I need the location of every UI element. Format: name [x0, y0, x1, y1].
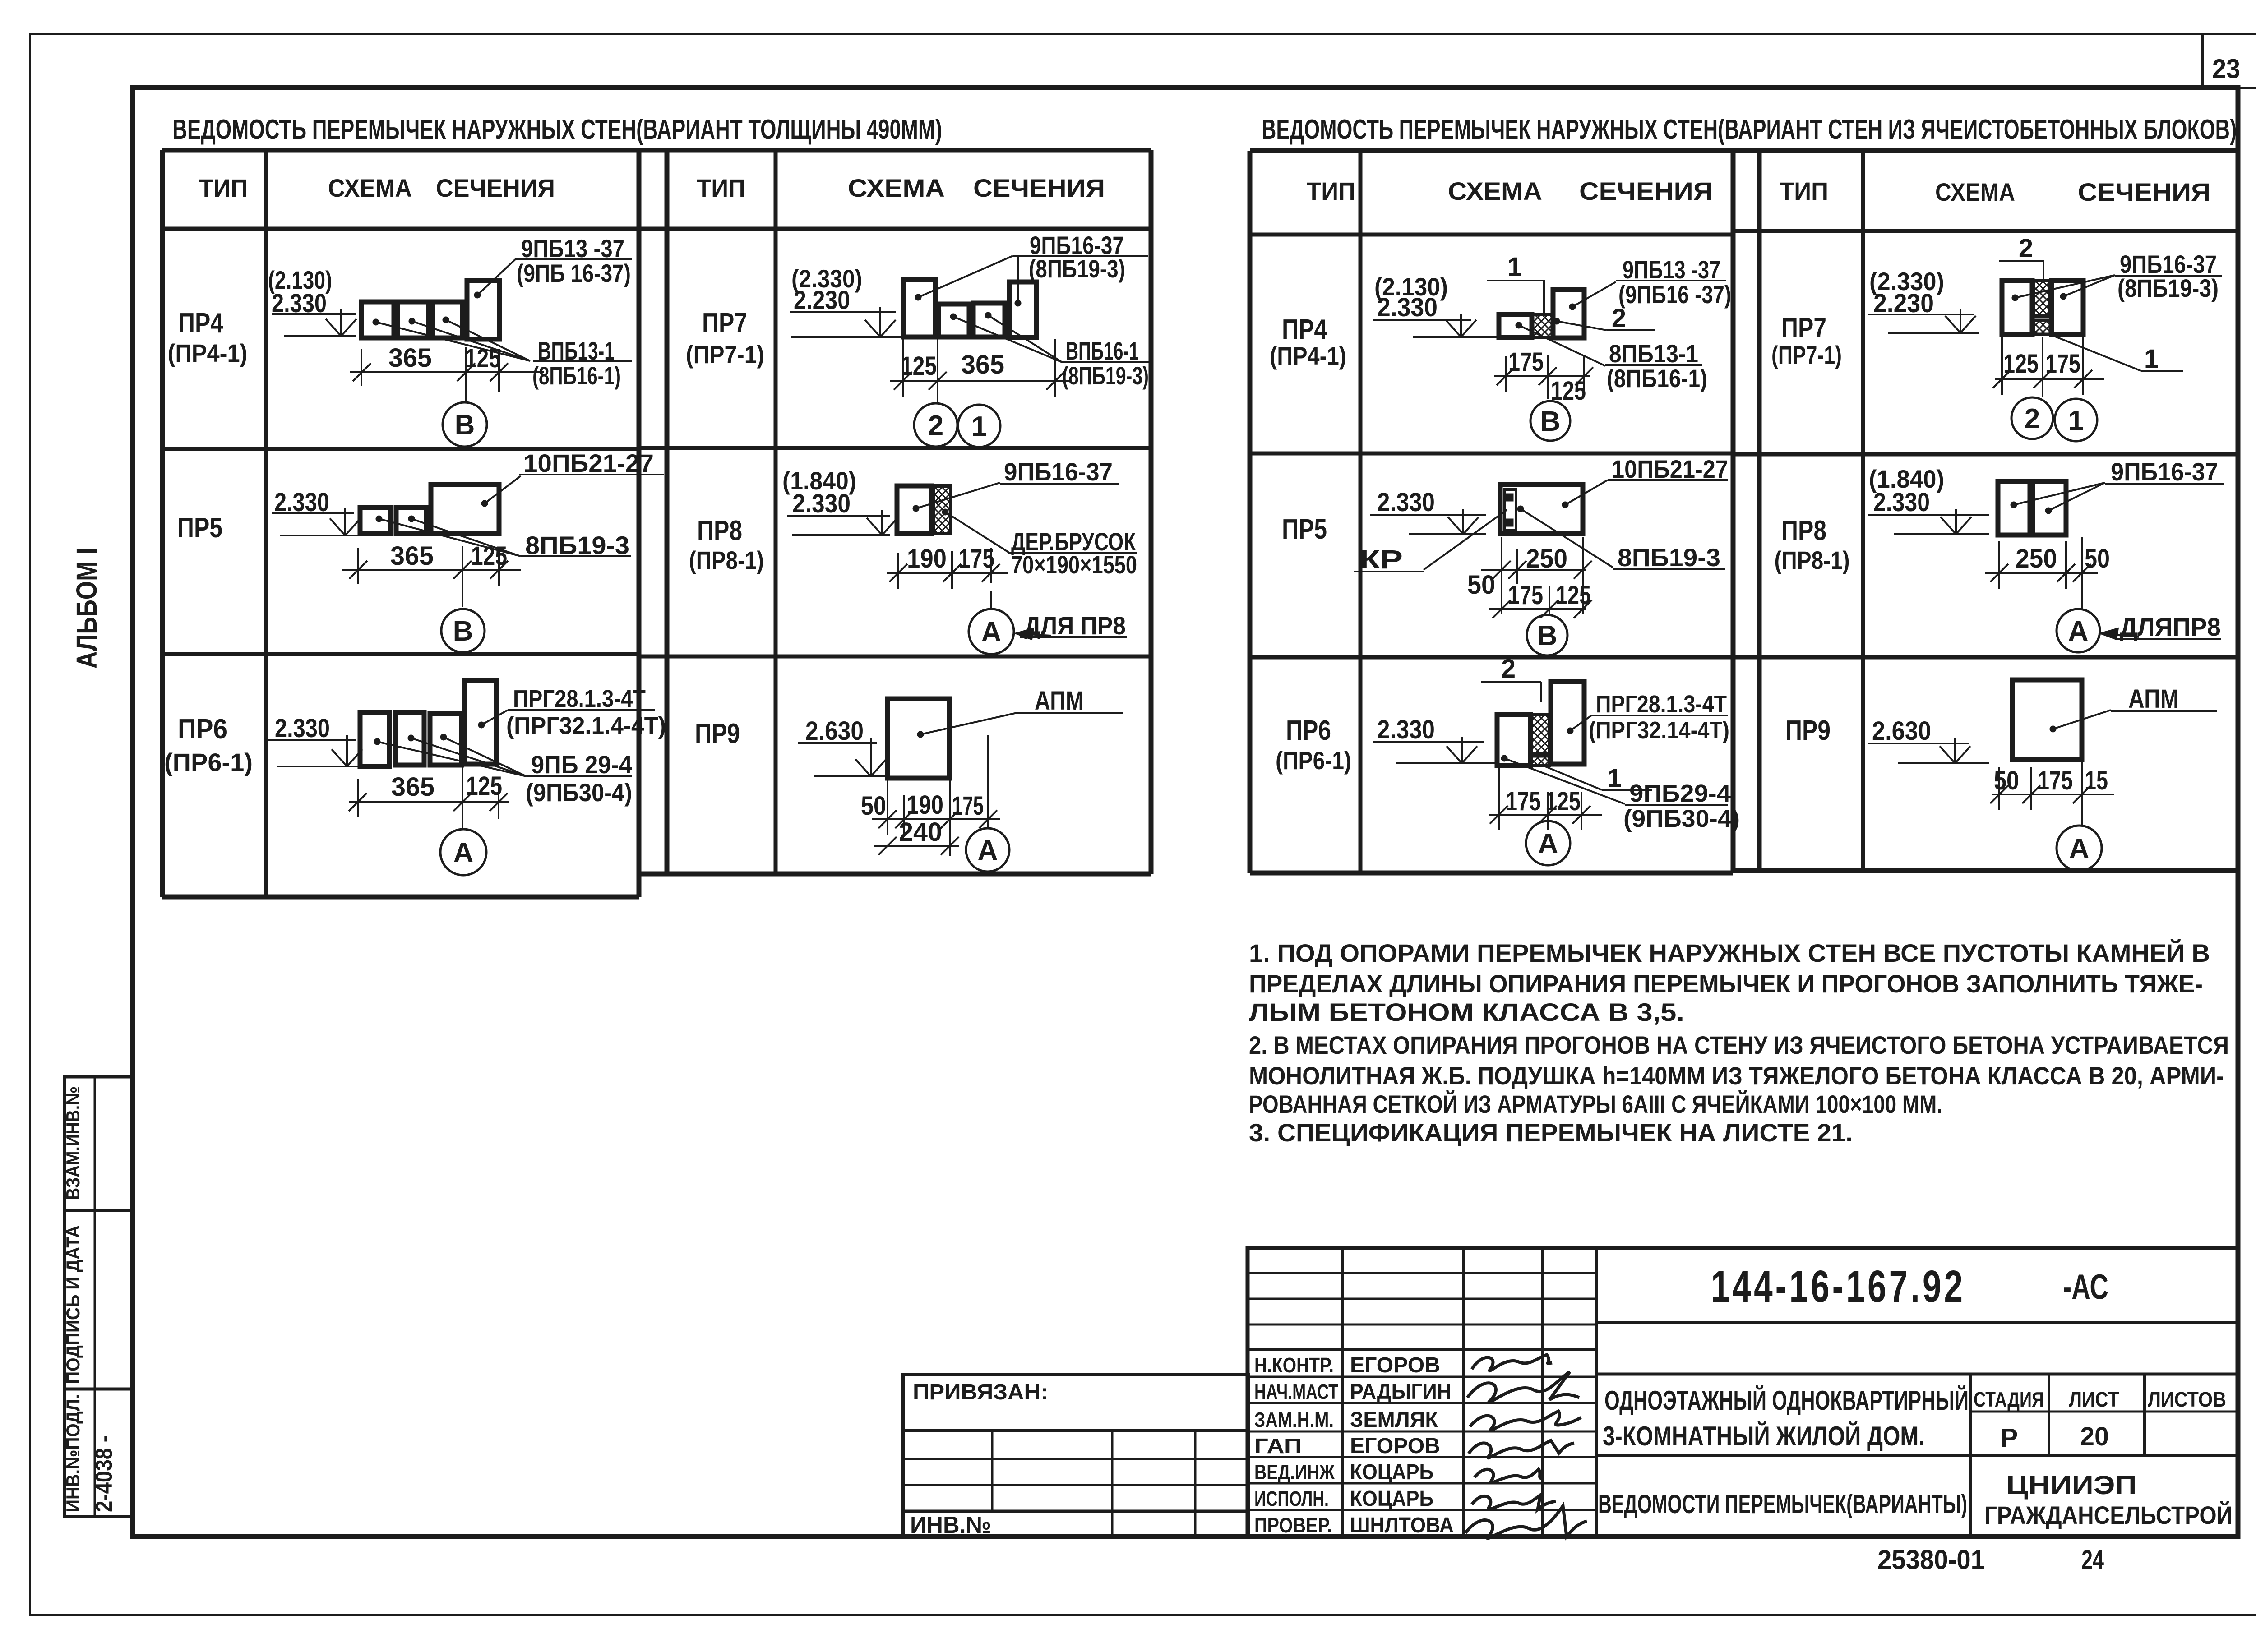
svg-text:АПМ: АПМ	[2128, 684, 2179, 714]
svg-text:190: 190	[906, 790, 943, 820]
dimension line 240 A2-ПР9	[874, 845, 959, 847]
witness line to section mark B2-ПР9	[2081, 762, 2083, 826]
witness line to section mark A2-ПР8	[990, 591, 992, 609]
svg-text:2.330: 2.330	[1377, 715, 1435, 744]
section mark В A-ПР4	[443, 402, 487, 447]
section mark В B1-ПР5	[1527, 615, 1567, 655]
slab rect A2-ПР9	[888, 699, 949, 778]
dimension line 175/125 B1-ПР6	[1489, 814, 1602, 816]
hatched small block B1-ПР6	[1530, 756, 1549, 766]
svg-text:Р: Р	[2001, 1423, 2018, 1453]
svg-text:СЕЧЕНИЯ: СЕЧЕНИЯ	[1579, 177, 1713, 205]
svg-text:ПР9: ПР9	[1785, 715, 1831, 746]
section mark В A-ПР5	[441, 609, 485, 652]
witness line to section mark B2-ПР8	[2081, 537, 2083, 609]
svg-text:(ПР6-1): (ПР6-1)	[164, 748, 253, 776]
svg-text:ПР9: ПР9	[695, 718, 740, 749]
privyazan header line	[903, 1429, 1248, 1432]
leader fan lines to blocks A-ПР6	[377, 742, 527, 776]
left table row line ПР4-ПР5 / ПР7-ПР8	[162, 447, 639, 451]
svg-text:ПРЕДЕЛАХ ДЛИНЫ ОПИРАНИЯ ПЕР: ПРЕДЕЛАХ ДЛИНЫ ОПИРАНИЯ ПЕРЕМЫЧЕК И ПРОГ…	[1249, 969, 2203, 998]
lintel block rect 4 (tall) A2-ПР7	[1009, 282, 1036, 337]
svg-text:125: 125	[2003, 349, 2039, 378]
svg-text:КОЦАРЬ: КОЦАРЬ	[1350, 1460, 1433, 1484]
svg-text:240: 240	[899, 817, 942, 847]
lintel block rect 1 A-ПР4	[361, 302, 394, 338]
right table header line	[1250, 233, 1733, 237]
lintel rect 2 B2-ПР8	[2033, 481, 2066, 535]
svg-text:9ПБ13 -37: 9ПБ13 -37	[521, 234, 624, 263]
right table half B1 bottom border	[1250, 871, 1733, 876]
svg-text:А: А	[453, 837, 474, 868]
svg-text:50: 50	[2085, 544, 2110, 573]
svg-text:1: 1	[1507, 252, 1522, 281]
witness line to section mark A2-ПР9	[987, 735, 989, 827]
svg-text:125: 125	[471, 541, 507, 571]
svg-text:-АС: -АС	[2063, 1267, 2108, 1306]
svg-text:ПР4: ПР4	[1282, 314, 1327, 345]
privyazan inner thin lines	[903, 1458, 1248, 1460]
svg-text:ЕГОРОВ: ЕГОРОВ	[1350, 1353, 1440, 1377]
svg-text:2: 2	[928, 410, 943, 441]
dimension line 175/125 B1-ПР5	[1489, 608, 1586, 610]
svg-text:365: 365	[391, 772, 435, 802]
svg-text:125: 125	[466, 771, 502, 801]
svg-text:8ПБ19-3: 8ПБ19-3	[525, 531, 629, 559]
section mark В B1-ПР4	[1530, 401, 1570, 441]
svg-text:9ПБ 29-4: 9ПБ 29-4	[531, 750, 632, 779]
lintel block rect 4 (tall) A-ПР6	[465, 681, 496, 764]
svg-text:2: 2	[2025, 403, 2040, 434]
title block outer border	[1248, 1248, 2238, 1537]
hatched small block B2-ПР7	[2034, 320, 2050, 334]
svg-text:2: 2	[2019, 234, 2033, 263]
svg-text:А: А	[978, 835, 998, 866]
svg-text:ВЕДОМОСТЬ ПЕРЕМЫЧЕК НАРУЖНЫХ С: ВЕДОМОСТЬ ПЕРЕМЫЧЕК НАРУЖНЫХ СТЕН(ВАРИАН…	[1262, 114, 2237, 145]
svg-text:175: 175	[2038, 766, 2073, 795]
section mark А B2-ПР9	[2057, 826, 2102, 871]
lintel rect tall B1-ПР6	[1551, 682, 1584, 764]
svg-text:ИНВ.№ПОДЛ.: ИНВ.№ПОДЛ.	[62, 1394, 83, 1512]
svg-text:ГРАЖДАНСЕЛЬСТРОЙ: ГРАЖДАНСЕЛЬСТРОЙ	[1984, 1501, 2233, 1529]
right table row line ПР4-ПР5 / ПР7-ПР8	[1250, 452, 1733, 456]
lintel block rect 4 (tall) A-ПР4	[467, 281, 499, 339]
svg-text:365: 365	[961, 350, 1004, 379]
lintel rect right B2-ПР7	[2052, 281, 2083, 334]
right table top border	[1250, 148, 2238, 153]
svg-text:ПРГ28.1.3-4Т: ПРГ28.1.3-4Т	[513, 685, 646, 712]
svg-text:ПР4: ПР4	[178, 308, 223, 339]
svg-text:В: В	[1537, 620, 1558, 651]
svg-text:50: 50	[1467, 570, 1495, 600]
dimension line 190/175 A2-ПР8	[887, 572, 1008, 574]
hatched strip B1-ПР6	[1530, 715, 1549, 754]
page number box 23	[2201, 34, 2204, 88]
svg-text:8ПБ13-1: 8ПБ13-1	[1609, 339, 1698, 368]
right table row line ПР5-ПР6 / ПР8-ПР9	[1250, 655, 2238, 660]
lintel block rect 2 A-ПР5	[396, 508, 426, 534]
svg-text:1: 1	[2144, 344, 2159, 374]
stage/sheet header cells	[1969, 1374, 1972, 1537]
dimension line 125/365 A2-ПР7	[890, 380, 1071, 382]
svg-text:175: 175	[1506, 787, 1541, 816]
svg-text:ПР5: ПР5	[177, 512, 222, 544]
svg-text:СХЕМА: СХЕМА	[1935, 178, 2015, 206]
dimension line 175/125 B1-ПР4	[1494, 375, 1590, 377]
svg-text:ПР7: ПР7	[702, 308, 747, 339]
hatched block B1-ПР4	[1532, 314, 1553, 337]
svg-text:(ПР7-1): (ПР7-1)	[1771, 341, 1842, 369]
svg-text:ВЕД.ИНЖ: ВЕД.ИНЖ	[1254, 1460, 1335, 1484]
left table row line ПР5-ПР6 / ПР8-ПР9	[162, 652, 639, 656]
svg-text:(8ПБ19-3): (8ПБ19-3)	[2117, 274, 2219, 302]
svg-text:(9ПБ 16-37): (9ПБ 16-37)	[517, 259, 631, 287]
left table top border	[162, 148, 1151, 153]
svg-text:1: 1	[1607, 764, 1622, 793]
left table verticals	[160, 150, 165, 897]
svg-text:(ПР4-1): (ПР4-1)	[1270, 341, 1346, 370]
left table half A2 bottom border	[639, 872, 1151, 877]
svg-text:ИСПОЛН.: ИСПОЛН.	[1254, 1487, 1329, 1510]
svg-text:ТИП: ТИП	[1780, 177, 1828, 205]
title block narrow top rows	[1248, 1272, 1596, 1274]
lintel rect left B1-ПР4	[1499, 314, 1532, 337]
svg-text:175: 175	[2045, 349, 2080, 378]
svg-text:125: 125	[901, 351, 937, 381]
svg-text:1: 1	[971, 411, 987, 442]
svg-text:В: В	[453, 616, 473, 647]
dimension line 365/125 A-ПР6	[349, 801, 509, 803]
svg-text:50: 50	[1994, 766, 2019, 795]
lintel block rect 2 A2-ПР7	[938, 304, 969, 337]
right table half B2 bottom border	[1733, 868, 2238, 873]
leader fan lines to blocks A2-ПР7	[953, 317, 1062, 362]
lintel block rect A2-ПР8	[897, 486, 932, 534]
leader fan lines to blocks A-ПР4	[376, 322, 530, 361]
svg-text:24: 24	[2081, 1545, 2104, 1575]
svg-text:1. ПОД ОПОРАМИ ПЕРЕМЫЧЕК НА: 1. ПОД ОПОРАМИ ПЕРЕМЫЧЕК НАРУЖНЫХ СТЕН В…	[1249, 939, 2210, 967]
svg-text:ОДНОЭТАЖНЫЙ ОДНОКВАРТИРНЫЙ: ОДНОЭТАЖНЫЙ ОДНОКВАРТИРНЫЙ	[1604, 1385, 1969, 1416]
section mark А A2-ПР8	[969, 609, 1014, 654]
dimension line 250/50 B2-ПР8	[1985, 572, 2098, 574]
svg-text:(8ПБ16-1): (8ПБ16-1)	[532, 361, 621, 390]
section mark А A-ПР6	[440, 829, 486, 875]
svg-text:ПР8: ПР8	[697, 515, 742, 546]
svg-text:175: 175	[1508, 581, 1543, 610]
svg-text:2.330: 2.330	[792, 489, 851, 518]
right table verticals	[1248, 151, 1253, 873]
lintel block rect 1 A-ПР6	[360, 712, 389, 766]
left table header line	[162, 227, 1151, 231]
left table half A bottom border	[162, 895, 639, 900]
svg-text:144-16-167.92: 144-16-167.92	[1711, 1261, 1965, 1312]
svg-text:СЕЧЕНИЯ: СЕЧЕНИЯ	[2078, 178, 2210, 206]
girder rect B1-ПР5	[1500, 485, 1583, 534]
svg-text:(9ПБ30-4): (9ПБ30-4)	[526, 778, 632, 807]
svg-text:10ПБ21-27: 10ПБ21-27	[523, 449, 654, 477]
lintel block rect 2 A-ПР6	[395, 712, 424, 765]
stamp box ПОДПИСЬ И ДАТА	[65, 1210, 132, 1389]
svg-text:А: А	[1538, 828, 1558, 859]
lintel block rect 3 A-ПР4	[432, 302, 462, 338]
svg-text:9ПБ16-37: 9ПБ16-37	[1004, 457, 1113, 486]
svg-text:(8ПБ19-3): (8ПБ19-3)	[1062, 361, 1149, 390]
lintel block rect 3 A-ПР6	[430, 714, 462, 765]
svg-text:ПРГ28.1.3-4Т: ПРГ28.1.3-4Т	[1596, 691, 1727, 718]
lintel block rect 3 A2-ПР7	[973, 303, 1005, 337]
dimension line 365/125 A-ПР5	[342, 569, 521, 571]
svg-text:(ПР7-1): (ПР7-1)	[686, 340, 764, 369]
svg-text:СТАДИЯ: СТАДИЯ	[1974, 1388, 2044, 1411]
section mark 2 B2-ПР7	[2011, 397, 2053, 439]
svg-text:ГАП: ГАП	[1254, 1434, 1302, 1458]
svg-text:ПР6: ПР6	[1286, 715, 1331, 746]
stamp box ИНВ.№ПОДЛ.	[65, 1389, 132, 1517]
svg-text:2.230: 2.230	[794, 286, 850, 315]
title block line above sheet name	[1596, 1454, 2238, 1457]
svg-text:2-4038 -: 2-4038 -	[91, 1435, 117, 1512]
svg-text:25380-01: 25380-01	[1877, 1545, 1985, 1575]
svg-text:9ПБ16-37: 9ПБ16-37	[2111, 457, 2218, 486]
svg-text:СХЕМА: СХЕМА	[848, 174, 945, 202]
svg-text:(ПРГ32.1.4-4Т): (ПРГ32.1.4-4Т)	[506, 712, 666, 739]
svg-text:9ПБ13 -37: 9ПБ13 -37	[1623, 255, 1720, 284]
witness line to section mark B1-ПР6	[1547, 817, 1549, 821]
svg-text:(9ПБ16 -37): (9ПБ16 -37)	[1618, 280, 1731, 309]
svg-text:2.630: 2.630	[1872, 716, 1931, 746]
svg-text:ВЗАМ.ИНВ.№: ВЗАМ.ИНВ.№	[62, 1086, 83, 1200]
svg-text:ЗЕМЛЯК: ЗЕМЛЯК	[1350, 1408, 1438, 1432]
dimension line 365/125 A-ПР4	[350, 371, 544, 373]
svg-text:2. В МЕСТАХ ОПИРАНИЯ ПРОГОНО: 2. В МЕСТАХ ОПИРАНИЯ ПРОГОНОВ НА СТЕНУ И…	[1249, 1031, 2229, 1059]
privyazan lower thick line	[903, 1510, 1248, 1513]
svg-text:РАДЫГИН: РАДЫГИН	[1350, 1380, 1452, 1404]
svg-text:2.330: 2.330	[1377, 293, 1438, 322]
section mark А B1-ПР6	[1526, 821, 1570, 865]
svg-text:А: А	[2069, 833, 2090, 864]
svg-text:ЕГОРОВ: ЕГОРОВ	[1350, 1434, 1440, 1458]
svg-text:МОНОЛИТНАЯ Ж.Б. ПОДУШКА h=1: МОНОЛИТНАЯ Ж.Б. ПОДУШКА h=140ММ ИЗ ТЯЖЕЛ…	[1249, 1061, 2224, 1090]
svg-text:СХЕМА: СХЕМА	[1448, 177, 1542, 205]
lintel rect left B2-ПР7	[2002, 281, 2032, 334]
svg-text:50: 50	[861, 791, 886, 821]
svg-text:В: В	[455, 410, 475, 441]
svg-text:175: 175	[1508, 347, 1544, 377]
slab rect B2-ПР9	[2012, 680, 2082, 760]
wood block hatched strip A2-ПР8	[933, 486, 951, 534]
svg-text:НАЧ.МАСТ: НАЧ.МАСТ	[1254, 1380, 1338, 1403]
svg-text:ПРИВЯЗАН:: ПРИВЯЗАН:	[913, 1380, 1048, 1404]
svg-text:(ПР4-1): (ПР4-1)	[168, 339, 248, 367]
svg-text:Н.КОНТР.: Н.КОНТР.	[1254, 1353, 1334, 1377]
connection strip B1-ПР5	[1504, 489, 1516, 530]
svg-text:3-КОМНАТНЫЙ ЖИЛОЙ ДОМ.: 3-КОМНАТНЫЙ ЖИЛОЙ ДОМ.	[1603, 1421, 1925, 1451]
svg-text:9ПБ29-4: 9ПБ29-4	[1629, 780, 1731, 807]
svg-text:РОВАННАЯ СЕТКОЙ ИЗ АРМАТУРЫ 6: РОВАННАЯ СЕТКОЙ ИЗ АРМАТУРЫ 6АIII С ЯЧЕЙ…	[1249, 1090, 1942, 1118]
lintel block rect 1 (tall) A2-ПР7	[904, 280, 935, 337]
svg-text:10ПБ21-27: 10ПБ21-27	[1612, 455, 1728, 483]
svg-text:СЕЧЕНИЯ: СЕЧЕНИЯ	[436, 174, 555, 202]
dimension line 50/250 B1-ПР5	[1481, 569, 1586, 571]
svg-text:1: 1	[2068, 405, 2084, 436]
svg-text:СХЕМА: СХЕМА	[328, 174, 412, 202]
svg-text:ПР8: ПР8	[1781, 515, 1826, 546]
svg-text:ПР5: ПР5	[1282, 514, 1327, 545]
lintel block rect big A-ПР5	[431, 485, 499, 534]
svg-text:2.330: 2.330	[275, 714, 330, 743]
svg-text:А: А	[981, 617, 1002, 648]
svg-text:ПОДПИСЬ И ДАТА: ПОДПИСЬ И ДАТА	[62, 1225, 83, 1384]
lintel block rect 2 A-ПР4	[398, 302, 429, 338]
signatures	[1472, 1355, 1552, 1371]
svg-text:ЛИСТОВ: ЛИСТОВ	[2148, 1388, 2226, 1411]
svg-text:250: 250	[1526, 544, 1567, 573]
svg-text:3. СПЕЦИФИКАЦИЯ ПЕРЕМЫЧЕК НА: 3. СПЕЦИФИКАЦИЯ ПЕРЕМЫЧЕК НА ЛИСТЕ 21.	[1249, 1118, 1853, 1147]
svg-text:2.330: 2.330	[1377, 488, 1435, 517]
svg-text:175: 175	[958, 544, 994, 573]
svg-text:СЕЧЕНИЯ: СЕЧЕНИЯ	[973, 174, 1105, 202]
svg-text:ВЕДОМОСТИ ПЕРЕМЫЧЕК(ВАРИАНТЫ): ВЕДОМОСТИ ПЕРЕМЫЧЕК(ВАРИАНТЫ)	[1598, 1490, 1967, 1519]
svg-text:КР: КР	[1359, 545, 1403, 574]
svg-text:ПР6: ПР6	[178, 714, 227, 745]
svg-text:ЗАМ.Н.М.: ЗАМ.Н.М.	[1254, 1408, 1334, 1431]
svg-text:(8ПБ16-1): (8ПБ16-1)	[1607, 364, 1707, 392]
svg-text:23: 23	[2212, 54, 2240, 84]
lintel rect left B1-ПР6	[1497, 715, 1530, 766]
dimension line 50/175/15 B2-ПР9	[1992, 794, 2114, 795]
svg-text:ЛЫМ БЕТОНОМ КЛАССА В 3: ЛЫМ БЕТОНОМ КЛАССА В 3,5.	[1249, 998, 1684, 1026]
svg-text:АПМ: АПМ	[1035, 686, 1084, 715]
title block horizontal line under number	[1596, 1321, 2238, 1324]
svg-text:125: 125	[1556, 581, 1591, 610]
svg-text:125: 125	[1545, 787, 1581, 816]
svg-text:(ПРГ32.14-4Т): (ПРГ32.14-4Т)	[1589, 717, 1729, 744]
section mark А B2-ПР8	[2057, 609, 2100, 652]
svg-text:ПР7: ПР7	[1781, 313, 1826, 344]
svg-text:125: 125	[465, 344, 501, 373]
section mark 1 A2-ПР7	[958, 405, 1000, 447]
hatched strip B2-ПР7	[2034, 281, 2050, 316]
dimension line 50/190/175 A2-ПР9	[872, 818, 1000, 820]
svg-text:8ПБ19-3: 8ПБ19-3	[1618, 543, 1720, 572]
svg-text:ВПБ16-1: ВПБ16-1	[1066, 337, 1139, 365]
svg-text:ЛИСТ: ЛИСТ	[2069, 1388, 2119, 1411]
svg-text:ТИП: ТИП	[1307, 177, 1355, 205]
svg-text:365: 365	[390, 541, 434, 571]
svg-text:В: В	[1540, 406, 1561, 437]
svg-text:АЛЬБОМ I: АЛЬБОМ I	[70, 548, 103, 669]
svg-text:(ПР6-1): (ПР6-1)	[1276, 746, 1351, 775]
svg-text:ИНВ.№: ИНВ.№	[910, 1512, 991, 1538]
svg-text:70×190×1550: 70×190×1550	[1011, 550, 1137, 579]
svg-text:2.630: 2.630	[805, 716, 864, 746]
svg-text:2.330: 2.330	[1873, 488, 1930, 517]
svg-text:ТИП: ТИП	[697, 174, 745, 202]
svg-text:ТИП: ТИП	[199, 174, 248, 202]
svg-text:(ПР8-1): (ПР8-1)	[689, 546, 764, 574]
svg-text:365: 365	[388, 343, 432, 373]
lintel rect tall B1-ПР4	[1553, 290, 1584, 338]
svg-text:(ПР8-1): (ПР8-1)	[1775, 546, 1850, 574]
section mark 1 B2-ПР7	[2055, 399, 2097, 441]
witness line to section mark B1-ПР4	[1548, 401, 1550, 401]
svg-text:(8ПБ19-3): (8ПБ19-3)	[1029, 254, 1125, 283]
svg-text:КОЦАРЬ: КОЦАРЬ	[1350, 1487, 1433, 1511]
section mark А A2-ПР9	[966, 828, 1009, 872]
dimension line 125/175 B2-ПР7	[1995, 378, 2104, 380]
section mark 2 A2-ПР7	[914, 403, 957, 447]
svg-text:190: 190	[907, 544, 947, 573]
svg-text:175: 175	[952, 791, 984, 821]
svg-text:ПРОВЕР.: ПРОВЕР.	[1254, 1514, 1332, 1537]
svg-text:(9ПБ30-4): (9ПБ30-4)	[1623, 805, 1740, 832]
lintel rect 1 B2-ПР8	[1998, 481, 2030, 535]
lintel block rect 1 A-ПР5	[360, 508, 390, 534]
privyazan vertical dividers	[991, 1431, 994, 1511]
stamp box ВЗАМ.ИНВ.№	[65, 1077, 132, 1210]
svg-text:250: 250	[2016, 544, 2057, 573]
svg-text:А: А	[2068, 616, 2089, 647]
svg-text:ВЕДОМОСТЬ ПЕРЕМЫЧЕК НАРУЖНЫХ С: ВЕДОМОСТЬ ПЕРЕМЫЧЕК НАРУЖНЫХ СТЕН(ВАРИАН…	[172, 114, 942, 145]
svg-text:15: 15	[2085, 766, 2108, 795]
title block vertical dividers left part	[1341, 1248, 1344, 1537]
svg-text:ЦНИИЭП: ЦНИИЭП	[2006, 1471, 2137, 1500]
title block horizontal line above project name	[1596, 1373, 2238, 1376]
title block name row lines	[1248, 1376, 1596, 1378]
svg-text:20: 20	[2080, 1422, 2109, 1451]
privyazan block border	[903, 1375, 1248, 1537]
svg-text:2: 2	[1501, 654, 1516, 683]
svg-text:ШНЛТОВА: ШНЛТОВА	[1350, 1514, 1454, 1537]
